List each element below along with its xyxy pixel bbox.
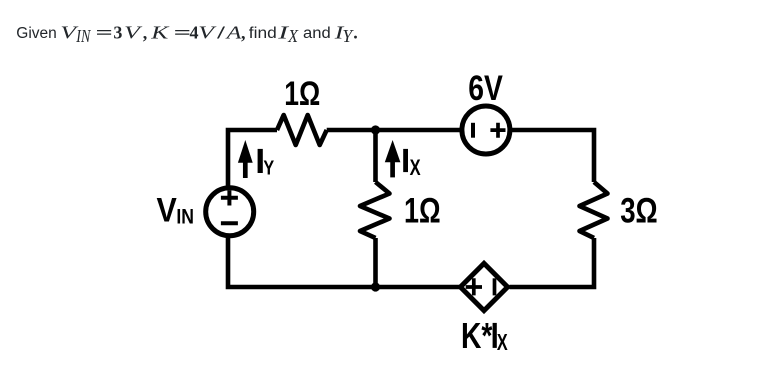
current arrow IY bbox=[238, 140, 253, 178]
svg-text:K*: K* bbox=[461, 315, 493, 356]
svg-text:4: 4 bbox=[190, 22, 199, 42]
svg-text:,: , bbox=[241, 22, 246, 42]
svg-text:6V: 6V bbox=[468, 68, 503, 108]
wire: right rail lower + bottom rail right segment bbox=[510, 238, 595, 287]
svg-text:V: V bbox=[157, 192, 177, 230]
label IX bbox=[403, 149, 420, 180]
svg-text:1Ω: 1Ω bbox=[284, 75, 320, 113]
svg-text:IN: IN bbox=[75, 27, 91, 46]
svg-text:Y: Y bbox=[263, 158, 274, 180]
svg-text:IN: IN bbox=[176, 206, 194, 229]
svg-text:1Ω: 1Ω bbox=[404, 190, 441, 230]
wire: middle branch lower bbox=[373, 238, 378, 287]
svg-text:3Ω: 3Ω bbox=[620, 190, 658, 230]
svg-text:and: and bbox=[303, 24, 331, 41]
svg-text:X: X bbox=[287, 26, 298, 46]
label 6V bbox=[468, 68, 503, 108]
svg-text:X: X bbox=[497, 329, 508, 355]
svg-text:Given: Given bbox=[16, 25, 57, 42]
wire: top rail middle segment bbox=[327, 128, 463, 133]
svg-text:.: . bbox=[353, 22, 358, 42]
label R2 value 1Ω bbox=[404, 190, 441, 230]
node B (bottom junction dot) bbox=[371, 282, 380, 291]
voltage source VIN (circle with + -) bbox=[206, 188, 254, 236]
svg-text:A: A bbox=[225, 22, 242, 42]
current arrow IX bbox=[385, 140, 401, 177]
wire: middle branch upper bbox=[373, 130, 378, 182]
svg-text:X: X bbox=[410, 155, 421, 180]
node A (top junction dot) bbox=[371, 125, 380, 134]
voltage source U2 6V (circle) bbox=[462, 106, 510, 154]
svg-text:=: = bbox=[96, 23, 113, 42]
label R3 value 3Ω bbox=[620, 190, 658, 230]
svg-text:find: find bbox=[249, 25, 277, 42]
svg-text:K: K bbox=[150, 22, 170, 42]
wire: left rail upper + top rail left segment bbox=[228, 130, 277, 188]
title text: Given VIN = 3 V, K = 4 V/A, find IX and IY. bbox=[16, 22, 357, 46]
label K*Ix bbox=[461, 315, 508, 356]
resistor R1 1Ω (top horizontal zigzag) bbox=[277, 115, 327, 145]
dependent source U3 K*Ix (diamond) bbox=[460, 263, 507, 310]
resistor R3 3Ω (right vertical zigzag) bbox=[580, 182, 608, 238]
wire: bottom rail left segment + left rail lower bbox=[228, 235, 461, 287]
label R1 value 1Ω bbox=[284, 75, 320, 113]
wire: top rail right segment + right rail upper bbox=[509, 130, 594, 182]
svg-text:=: = bbox=[174, 23, 191, 42]
label IY bbox=[258, 149, 275, 180]
label VIN bbox=[157, 192, 195, 230]
resistor R2 1Ω (middle vertical zigzag) bbox=[360, 182, 390, 238]
svg-text:,: , bbox=[143, 22, 148, 42]
svg-text:/: / bbox=[216, 23, 225, 43]
svg-text:3: 3 bbox=[113, 22, 122, 42]
